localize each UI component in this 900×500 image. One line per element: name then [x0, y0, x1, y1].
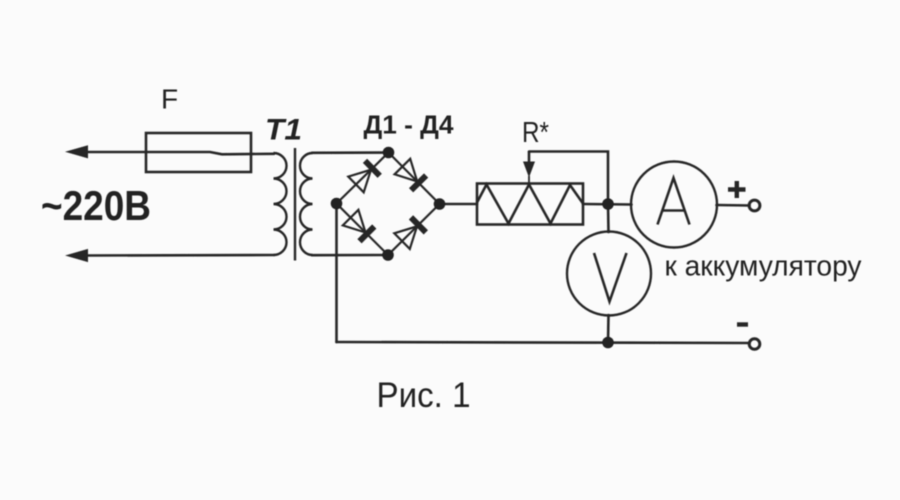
svg-text:~220В: ~220В [41, 182, 151, 229]
svg-text:F: F [161, 84, 178, 115]
svg-text:R*: R* [522, 117, 549, 149]
svg-text:к аккумулятору: к аккумулятору [665, 251, 863, 283]
svg-text:Рис. 1: Рис. 1 [377, 376, 471, 415]
svg-text:T1: T1 [265, 114, 302, 147]
svg-text:Д1 - Д4: Д1 - Д4 [364, 112, 455, 140]
